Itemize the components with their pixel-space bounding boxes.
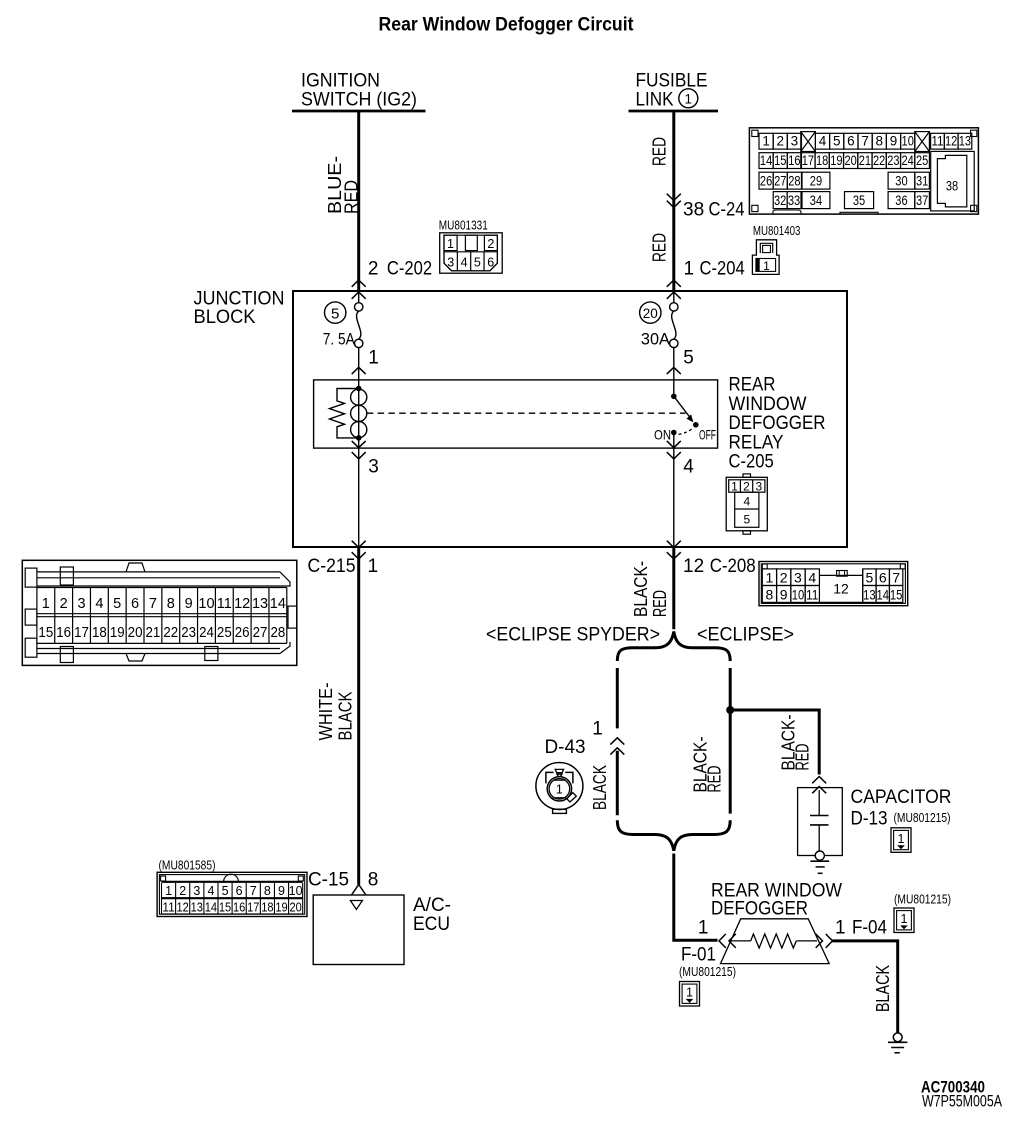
- svg-text:1: 1: [368, 556, 379, 577]
- svg-text:18: 18: [92, 625, 107, 641]
- svg-text:W7P55M005A: W7P55M005A: [922, 1093, 1002, 1111]
- svg-text:3: 3: [77, 596, 85, 612]
- svg-text:27: 27: [774, 174, 786, 189]
- svg-text:29: 29: [810, 174, 822, 189]
- svg-text:DEFOGGER: DEFOGGER: [711, 899, 808, 920]
- svg-text:REAR: REAR: [729, 375, 776, 396]
- svg-text:33: 33: [788, 193, 800, 208]
- svg-text:15: 15: [219, 900, 231, 914]
- svg-text:BLACK: BLACK: [590, 765, 610, 810]
- svg-text:C-15: C-15: [308, 870, 349, 891]
- svg-text:RED: RED: [342, 180, 362, 214]
- svg-text:3: 3: [755, 479, 762, 493]
- svg-text:22: 22: [163, 625, 178, 641]
- svg-text:13: 13: [863, 586, 876, 602]
- svg-text:<ECLIPSE>: <ECLIPSE>: [697, 625, 794, 646]
- svg-text:15: 15: [774, 153, 786, 168]
- svg-text:6: 6: [487, 256, 494, 270]
- svg-text:12: 12: [833, 581, 849, 597]
- svg-text:9: 9: [278, 884, 285, 898]
- svg-text:7. 5A: 7. 5A: [323, 330, 355, 348]
- svg-text:37: 37: [916, 193, 928, 208]
- svg-text:6: 6: [236, 884, 243, 898]
- svg-text:12: 12: [683, 556, 704, 577]
- svg-text:2: 2: [487, 237, 494, 251]
- svg-text:2: 2: [179, 884, 186, 898]
- svg-text:3: 3: [368, 457, 379, 478]
- svg-text:(MU801215): (MU801215): [894, 811, 951, 825]
- svg-text:23: 23: [181, 625, 196, 641]
- svg-text:13: 13: [252, 596, 268, 612]
- svg-text:3: 3: [794, 569, 802, 585]
- svg-text:6: 6: [131, 596, 139, 612]
- svg-text:3: 3: [193, 884, 200, 898]
- svg-text:12: 12: [234, 596, 250, 612]
- svg-text:3: 3: [791, 134, 799, 149]
- svg-text:MU801331: MU801331: [439, 219, 488, 233]
- svg-text:18: 18: [261, 900, 273, 914]
- svg-text:WHITE-: WHITE-: [316, 682, 336, 740]
- svg-text:1: 1: [685, 91, 693, 106]
- svg-text:20: 20: [643, 306, 658, 321]
- svg-text:C-205: C-205: [729, 452, 774, 473]
- svg-text:1: 1: [763, 259, 770, 273]
- svg-text:RELAY: RELAY: [729, 432, 784, 453]
- svg-text:1: 1: [901, 912, 908, 926]
- svg-text:16: 16: [233, 900, 245, 914]
- svg-text:8: 8: [264, 884, 271, 898]
- svg-text:1: 1: [762, 134, 770, 149]
- svg-text:A/C-: A/C-: [413, 895, 451, 916]
- svg-text:BLACK: BLACK: [335, 692, 355, 741]
- svg-text:CAPACITOR: CAPACITOR: [851, 787, 952, 808]
- svg-text:BLOCK: BLOCK: [194, 307, 256, 328]
- svg-text:10: 10: [198, 596, 214, 612]
- svg-text:36: 36: [895, 193, 907, 208]
- svg-text:C-208: C-208: [710, 556, 756, 577]
- svg-text:RED: RED: [704, 766, 724, 793]
- svg-text:22: 22: [873, 153, 885, 168]
- svg-text:<ECLIPSE SPYDER>: <ECLIPSE SPYDER>: [486, 625, 660, 646]
- svg-text:21: 21: [146, 625, 161, 641]
- svg-text:WINDOW: WINDOW: [729, 394, 807, 415]
- svg-text:6: 6: [847, 134, 855, 149]
- svg-text:RED: RED: [650, 233, 670, 262]
- svg-text:1: 1: [766, 569, 774, 585]
- svg-text:RED: RED: [793, 744, 813, 771]
- svg-text:32: 32: [774, 193, 786, 208]
- svg-text:26: 26: [235, 625, 250, 641]
- svg-text:31: 31: [916, 174, 928, 189]
- svg-text:34: 34: [810, 193, 823, 208]
- svg-text:11: 11: [806, 586, 819, 602]
- svg-text:19: 19: [830, 153, 842, 168]
- svg-text:3: 3: [447, 256, 454, 270]
- svg-text:14: 14: [270, 596, 286, 612]
- svg-text:11: 11: [217, 596, 232, 612]
- svg-text:5: 5: [474, 256, 481, 270]
- svg-text:19: 19: [275, 900, 287, 914]
- svg-text:14: 14: [760, 153, 773, 168]
- svg-text:1: 1: [447, 237, 454, 251]
- svg-text:D-43: D-43: [545, 737, 586, 758]
- svg-text:1: 1: [731, 479, 738, 493]
- svg-text:4: 4: [808, 569, 816, 585]
- svg-text:2: 2: [780, 569, 788, 585]
- svg-text:4: 4: [207, 884, 214, 898]
- svg-text:C-215: C-215: [308, 556, 356, 577]
- svg-text:F-04: F-04: [852, 918, 887, 939]
- svg-text:1: 1: [898, 832, 905, 846]
- svg-text:14: 14: [205, 900, 217, 914]
- svg-text:10: 10: [792, 586, 805, 602]
- svg-text:17: 17: [802, 153, 814, 168]
- svg-text:12: 12: [177, 900, 189, 914]
- svg-text:21: 21: [859, 153, 871, 168]
- svg-text:1: 1: [42, 596, 50, 612]
- svg-text:4: 4: [461, 256, 468, 270]
- svg-text:17: 17: [247, 900, 259, 914]
- svg-text:6: 6: [879, 569, 887, 585]
- svg-text:ON: ON: [654, 427, 671, 443]
- svg-text:24: 24: [902, 153, 915, 168]
- svg-text:5: 5: [113, 596, 121, 612]
- svg-text:D-13: D-13: [851, 809, 888, 830]
- svg-text:11: 11: [931, 134, 943, 149]
- svg-text:2: 2: [776, 134, 784, 149]
- svg-text:BLACK: BLACK: [873, 965, 893, 1012]
- svg-text:C-24: C-24: [709, 200, 745, 221]
- svg-text:7: 7: [892, 569, 900, 585]
- svg-text:26: 26: [760, 174, 772, 189]
- svg-text:1: 1: [698, 918, 709, 939]
- svg-text:38: 38: [683, 200, 704, 221]
- svg-text:25: 25: [916, 153, 928, 168]
- svg-text:20: 20: [845, 153, 857, 168]
- svg-text:OFF: OFF: [699, 427, 716, 443]
- svg-text:SWITCH (IG2): SWITCH (IG2): [301, 89, 417, 111]
- svg-text:(MU801215): (MU801215): [679, 965, 736, 979]
- svg-text:18: 18: [816, 153, 828, 168]
- svg-text:30A: 30A: [641, 330, 670, 348]
- svg-text:RED: RED: [650, 137, 670, 166]
- svg-text:5: 5: [331, 305, 339, 322]
- svg-text:7: 7: [250, 884, 257, 898]
- svg-text:1: 1: [686, 986, 693, 1000]
- svg-text:1: 1: [592, 719, 603, 740]
- svg-text:9: 9: [890, 134, 898, 149]
- svg-text:15: 15: [38, 625, 53, 641]
- svg-text:4: 4: [683, 457, 694, 478]
- svg-text:38: 38: [946, 179, 958, 194]
- svg-text:20: 20: [289, 900, 301, 914]
- svg-text:13: 13: [191, 900, 203, 914]
- svg-text:8: 8: [876, 134, 884, 149]
- svg-text:7: 7: [861, 134, 869, 149]
- svg-text:(MU801585): (MU801585): [159, 859, 216, 873]
- svg-text:10: 10: [289, 884, 303, 898]
- svg-text:5: 5: [683, 348, 694, 369]
- svg-text:BLACK-: BLACK-: [631, 561, 651, 617]
- svg-text:5: 5: [222, 884, 229, 898]
- svg-text:15: 15: [890, 586, 903, 602]
- svg-text:16: 16: [56, 625, 71, 641]
- svg-text:DEFOGGER: DEFOGGER: [729, 413, 826, 434]
- svg-text:10: 10: [902, 134, 914, 149]
- svg-text:ECU: ECU: [413, 914, 450, 935]
- svg-text:1: 1: [165, 884, 172, 898]
- svg-text:28: 28: [270, 625, 285, 641]
- svg-text:27: 27: [253, 625, 268, 641]
- svg-text:17: 17: [74, 625, 89, 641]
- svg-text:F-01: F-01: [681, 945, 716, 966]
- svg-text:LINK: LINK: [636, 89, 674, 111]
- svg-text:1: 1: [556, 783, 563, 797]
- svg-text:C-204: C-204: [700, 259, 746, 280]
- svg-text:11: 11: [162, 900, 174, 914]
- svg-text:20: 20: [128, 625, 143, 641]
- svg-text:Rear Window Defogger Circuit: Rear Window Defogger Circuit: [379, 15, 635, 36]
- svg-text:(MU801215): (MU801215): [894, 893, 951, 907]
- svg-text:4: 4: [743, 495, 750, 509]
- svg-text:2: 2: [368, 259, 379, 280]
- svg-text:9: 9: [185, 596, 193, 612]
- svg-text:24: 24: [199, 625, 214, 641]
- svg-text:RED: RED: [650, 590, 670, 617]
- svg-text:MU801403: MU801403: [753, 224, 801, 238]
- svg-text:5: 5: [743, 513, 750, 527]
- svg-text:C-202: C-202: [387, 259, 432, 280]
- svg-text:30: 30: [895, 174, 907, 189]
- svg-text:16: 16: [788, 153, 800, 168]
- svg-text:2: 2: [743, 479, 750, 493]
- svg-text:35: 35: [853, 193, 865, 208]
- svg-text:9: 9: [780, 586, 788, 602]
- svg-text:8: 8: [368, 870, 379, 891]
- svg-text:12: 12: [945, 134, 957, 149]
- svg-text:2: 2: [60, 596, 68, 612]
- svg-text:28: 28: [788, 174, 800, 189]
- svg-text:5: 5: [866, 569, 874, 585]
- svg-text:8: 8: [766, 586, 774, 602]
- svg-text:19: 19: [110, 625, 125, 641]
- svg-text:1: 1: [684, 259, 695, 280]
- svg-text:5: 5: [833, 134, 841, 149]
- svg-text:23: 23: [887, 153, 899, 168]
- svg-text:8: 8: [167, 596, 175, 612]
- svg-text:1: 1: [368, 348, 379, 369]
- svg-text:25: 25: [217, 625, 232, 641]
- svg-text:4: 4: [819, 134, 827, 149]
- svg-text:14: 14: [877, 586, 890, 602]
- svg-text:4: 4: [95, 596, 103, 612]
- svg-text:7: 7: [149, 596, 157, 612]
- svg-text:13: 13: [959, 134, 971, 149]
- svg-text:1: 1: [835, 918, 846, 939]
